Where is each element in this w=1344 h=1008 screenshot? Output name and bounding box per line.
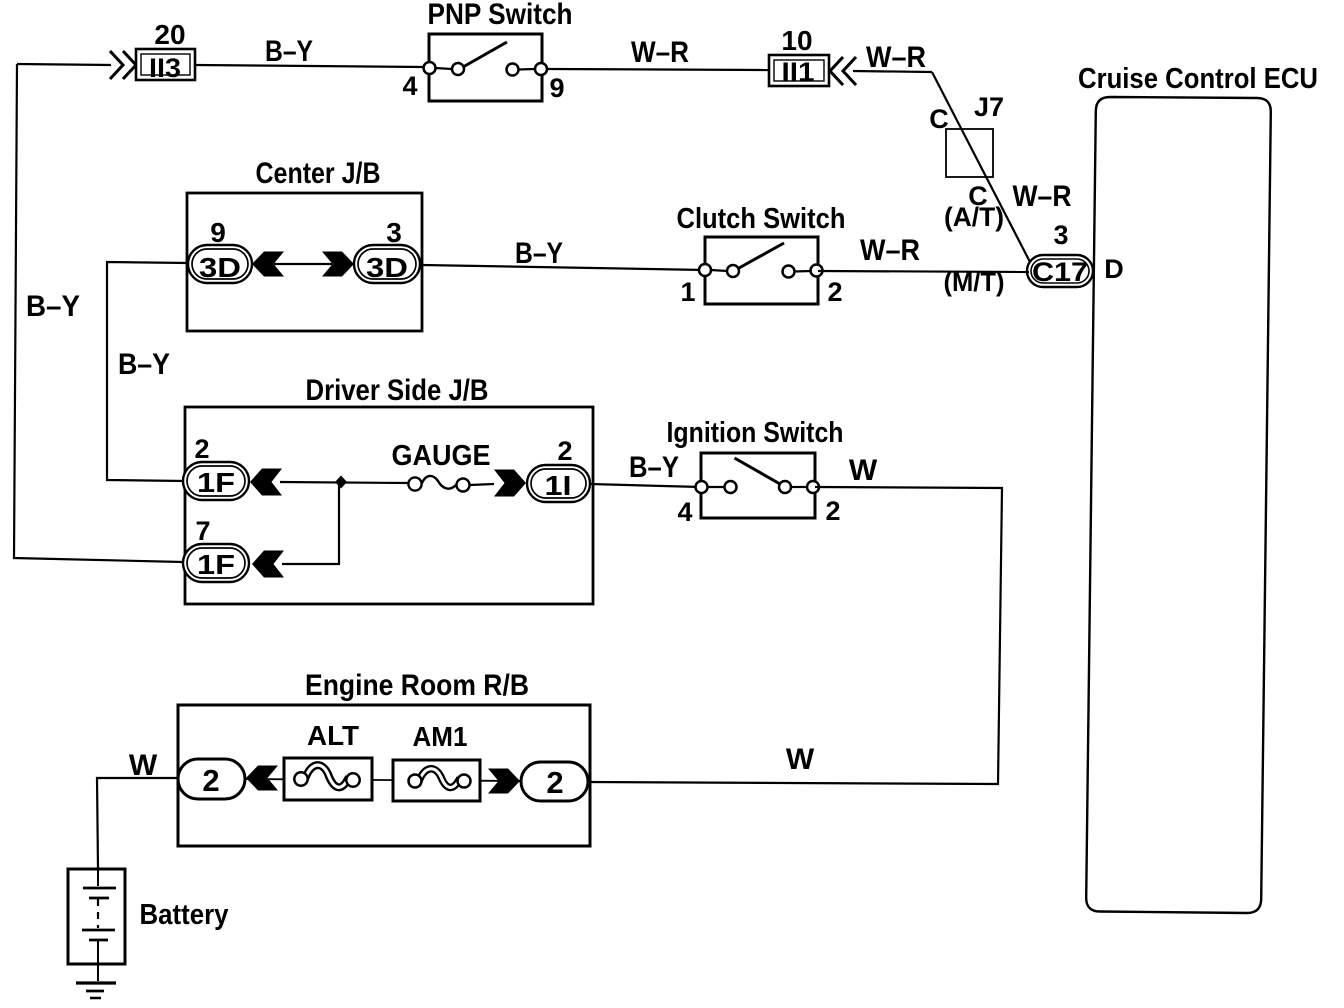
svg-text:B–Y: B–Y — [118, 348, 170, 381]
ECU box — [1086, 97, 1271, 913]
svg-text:B–Y: B–Y — [515, 237, 563, 270]
svg-text:C17: C17 — [1032, 257, 1088, 287]
arrow dart into 1F(7) — [252, 551, 284, 578]
svg-text:J7: J7 — [974, 92, 1004, 122]
svg-text:II1: II1 — [782, 57, 815, 87]
wire 3D branch: left oval to vertical down to 1F(2) — [107, 262, 188, 481]
wire gauge to right arrow — [470, 484, 494, 485]
svg-text:1: 1 — [680, 277, 695, 307]
svg-text:1I: 1I — [545, 470, 572, 501]
svg-text:W–R: W–R — [860, 234, 920, 267]
svg-text:Cruise Control ECU: Cruise Control ECU — [1078, 63, 1318, 95]
wire left vertical B-Y down to 1F(7) — [14, 64, 183, 562]
svg-text:3: 3 — [1053, 220, 1068, 250]
svg-text:B–Y: B–Y — [26, 290, 80, 323]
connector II3 — [136, 49, 195, 80]
junction block Center J/B — [187, 193, 422, 331]
connector II1 — [769, 55, 829, 86]
svg-text:ALT: ALT — [307, 720, 359, 751]
svg-text:II3: II3 — [149, 53, 181, 83]
svg-text:AM1: AM1 — [413, 721, 468, 752]
svg-text:Center J/B: Center J/B — [256, 157, 381, 190]
wire II1 chevrons to corner — [853, 71, 932, 72]
wire junction vertical to 1F(7) — [282, 482, 339, 564]
svg-text:3D: 3D — [199, 252, 241, 283]
svg-text:W–R: W–R — [1013, 180, 1072, 213]
fuse GAUGE — [408, 476, 469, 492]
svg-text:C: C — [929, 104, 949, 134]
wire top-left horizontal B-Y to chevron — [17, 64, 111, 65]
wire 1I to ignition switch — [590, 484, 701, 487]
svg-text:2: 2 — [825, 496, 840, 526]
svg-text:1F: 1F — [197, 549, 235, 580]
wire ignition to engine room R/B — [589, 487, 1002, 784]
svg-text:4: 4 — [677, 497, 692, 527]
svg-text:20: 20 — [154, 19, 185, 50]
svg-text:9: 9 — [210, 217, 226, 248]
svg-text:(A/T): (A/T) — [944, 202, 1004, 232]
svg-text:2: 2 — [546, 765, 563, 800]
switch Clutch Switch — [699, 237, 823, 304]
svg-text:W–R: W–R — [631, 36, 689, 69]
svg-text:PNP Switch: PNP Switch — [428, 0, 573, 31]
svg-text:9: 9 — [549, 73, 564, 103]
wire engine room to battery — [97, 778, 178, 869]
arrow dart into right 2 — [488, 769, 520, 794]
switch PNP Switch — [424, 34, 548, 101]
connector 1F row 2 — [183, 462, 249, 500]
connector 1I — [527, 465, 590, 502]
svg-text:2: 2 — [557, 436, 572, 466]
connector 2 left — [178, 759, 245, 799]
svg-text:(M/T): (M/T) — [944, 267, 1005, 297]
svg-text:B–Y: B–Y — [629, 451, 679, 484]
svg-text:GAUGE: GAUGE — [392, 440, 491, 472]
wire 1F(2) arrow to gauge and 1I — [280, 482, 408, 483]
wire clutch to C17 — [818, 271, 1029, 272]
svg-text:Ignition Switch: Ignition Switch — [667, 417, 844, 449]
svg-text:1F: 1F — [197, 467, 235, 498]
wire between 3D connectors — [274, 263, 332, 265]
ground — [76, 983, 116, 998]
svg-text:D: D — [1104, 254, 1124, 284]
svg-text:W: W — [786, 743, 815, 776]
wire diagonal W-R to C17 — [932, 72, 1030, 262]
svg-text:7: 7 — [195, 516, 210, 546]
arrow dart into 1I — [494, 470, 526, 497]
arrow dart into 1F(2) — [250, 469, 282, 496]
svg-text:B–Y: B–Y — [265, 35, 313, 68]
connector 3D left — [188, 245, 252, 283]
fuse AM1 — [393, 760, 480, 801]
junction dot — [335, 476, 347, 489]
svg-text:W–R: W–R — [866, 41, 926, 74]
switch Ignition Switch — [696, 453, 820, 518]
connector 1F row 7 — [183, 544, 249, 582]
svg-text:W: W — [849, 454, 878, 487]
connector 3D right — [354, 245, 420, 283]
arrow left dart — [252, 252, 284, 277]
wire II3 to PNP switch — [195, 65, 424, 67]
svg-text:Battery: Battery — [140, 899, 229, 931]
svg-text:W: W — [129, 749, 158, 782]
wire internal engine room — [245, 779, 521, 781]
svg-text:Clutch Switch: Clutch Switch — [677, 203, 846, 235]
svg-text:3: 3 — [386, 217, 402, 248]
chevron arrows << after II1 — [830, 57, 856, 85]
svg-text:3D: 3D — [366, 252, 408, 283]
junction J7 — [946, 129, 993, 177]
svg-text:2: 2 — [827, 277, 842, 307]
arrow right dart — [322, 252, 354, 277]
svg-text:Engine Room R/B: Engine Room R/B — [305, 669, 529, 702]
wire PNP to II1 — [547, 69, 769, 70]
connector 2 right — [521, 762, 588, 801]
svg-text:2: 2 — [202, 763, 219, 798]
chevron arrows >> into II3 — [110, 51, 136, 79]
arrow dart into left 2 — [246, 766, 278, 791]
wire 3D right to clutch switch — [422, 265, 705, 270]
junction block Driver Side J/B — [185, 407, 593, 604]
connector C17 — [1027, 255, 1093, 287]
svg-text:2: 2 — [194, 434, 209, 464]
svg-text:10: 10 — [781, 25, 812, 56]
svg-text:Driver Side J/B: Driver Side J/B — [306, 374, 489, 407]
fusible link ALT — [284, 758, 372, 800]
relay block Engine Room R/B — [178, 705, 590, 846]
battery — [68, 869, 125, 981]
svg-text:4: 4 — [402, 71, 417, 101]
